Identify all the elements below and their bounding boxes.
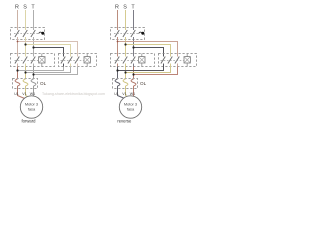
svg-text:W1: W1 (130, 92, 135, 96)
svg-text:reverse: reverse (117, 119, 132, 124)
svg-text:W1: W1 (30, 92, 35, 96)
svg-text:S: S (123, 5, 127, 11)
svg-text:U1: U1 (14, 92, 19, 96)
svg-text:V1: V1 (122, 92, 126, 96)
svg-text:fasa: fasa (127, 107, 135, 112)
svg-text:S: S (23, 5, 27, 11)
svg-text:fasa: fasa (28, 107, 36, 112)
svg-text:V1: V1 (22, 92, 26, 96)
svg-text:U1: U1 (114, 92, 119, 96)
svg-text:R: R (15, 5, 19, 11)
svg-text:forward: forward (22, 119, 37, 124)
svg-text:Tukang-share-elektronika.blogs: Tukang-share-elektronika.blogspot.com (42, 92, 105, 96)
svg-text:OL: OL (140, 81, 147, 86)
svg-text:R: R (115, 5, 119, 11)
svg-text:OL: OL (40, 81, 47, 86)
